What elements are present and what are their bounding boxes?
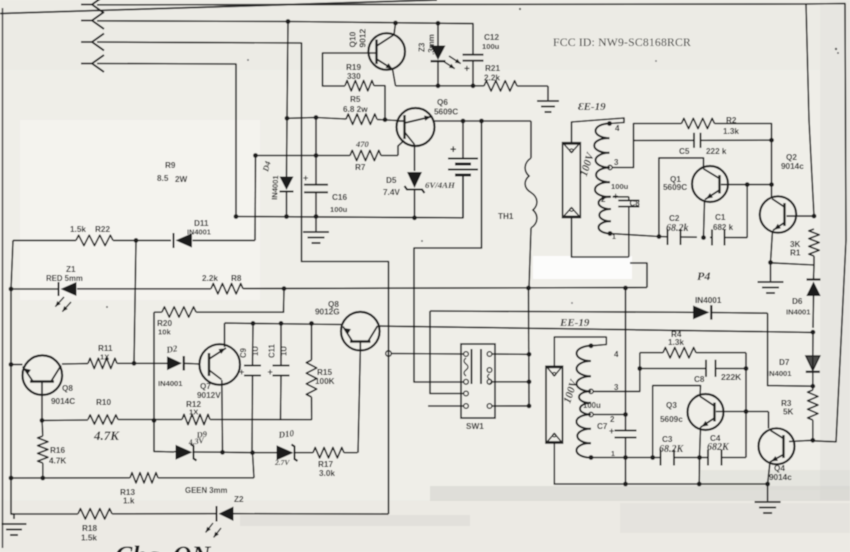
svg-text:Q10: Q10 bbox=[348, 31, 358, 47]
switch SW1 bbox=[461, 344, 495, 418]
svg-text:1: 1 bbox=[612, 234, 616, 241]
label Q8 bbox=[51, 384, 75, 406]
junction bottomrail-Q3e bbox=[697, 482, 702, 487]
wire Q1 collector loop bbox=[659, 158, 704, 237]
svg-text:Q6: Q6 bbox=[437, 98, 448, 107]
transistor Q5 bbox=[341, 312, 380, 351]
zener D9 bbox=[176, 444, 197, 461]
label R5 value bbox=[343, 105, 368, 114]
svg-text:10k: 10k bbox=[158, 328, 171, 337]
svg-text:Z1: Z1 bbox=[66, 265, 76, 274]
label R18 bbox=[81, 524, 97, 543]
label EE-19 bottom bbox=[559, 317, 590, 329]
wire lamp2 top lead bbox=[554, 337, 606, 366]
wire x430 vertical bbox=[430, 311, 464, 394]
junction base-R15 bbox=[309, 321, 314, 326]
svg-text:C2: C2 bbox=[669, 214, 680, 223]
capacitor C3 bbox=[661, 450, 675, 466]
junction base-C11 bbox=[279, 321, 284, 326]
label C8a bbox=[630, 199, 641, 208]
junction Q3base-x746 bbox=[744, 409, 749, 414]
svg-text:R10: R10 bbox=[96, 398, 111, 407]
label D9 4.3V bbox=[187, 436, 205, 447]
winding T2 bbox=[576, 346, 591, 458]
LED Z3 bbox=[431, 23, 461, 86]
svg-text:2: 2 bbox=[601, 195, 606, 204]
label Z1 RED 5mm bbox=[46, 274, 83, 283]
junction x11-R11 bbox=[9, 362, 14, 367]
text FCC ID bbox=[553, 36, 691, 49]
svg-text:IN4001: IN4001 bbox=[187, 228, 211, 237]
AC input arrow 2 bbox=[81, 12, 104, 29]
label C11 rotated bbox=[268, 343, 277, 358]
svg-text:2: 2 bbox=[610, 415, 615, 424]
svg-text:IN4001: IN4001 bbox=[786, 308, 811, 317]
svg-text:+: + bbox=[609, 426, 614, 436]
junction collector-battery bbox=[461, 119, 466, 124]
label 100u T1 bbox=[611, 182, 629, 191]
pin 3 T2 bbox=[589, 383, 619, 394]
svg-text:Z3: Z3 bbox=[418, 42, 427, 52]
wire AC line1 horizontal bbox=[97, 3, 806, 6]
junction R3-bottomwire bbox=[810, 438, 815, 443]
label R3 bbox=[781, 399, 794, 417]
svg-text:R19: R19 bbox=[346, 63, 361, 72]
resistor R5 bbox=[346, 114, 377, 124]
wire Q2 base right bbox=[787, 215, 815, 217]
transistor Q8 bbox=[23, 355, 63, 420]
wire C5 rail bbox=[634, 139, 772, 141]
svg-text:330: 330 bbox=[347, 72, 361, 81]
junction R16-R13 bbox=[40, 476, 45, 481]
junction tap2-x625 bbox=[623, 412, 628, 417]
junction rail288-R20 bbox=[282, 286, 287, 291]
wire tap2 to C7line bbox=[593, 414, 625, 416]
svg-text:222 k: 222 k bbox=[706, 147, 727, 156]
transistor Q10 bbox=[368, 23, 405, 86]
junction R5-x316 bbox=[314, 115, 319, 120]
junction x11-rail288 bbox=[9, 287, 14, 292]
resistor R22 bbox=[76, 235, 113, 245]
label D6 bbox=[786, 297, 811, 317]
page border top diagonal bbox=[0, 0, 437, 14]
svg-text:6V/4AH: 6V/4AH bbox=[425, 180, 456, 190]
label C7 bbox=[597, 422, 608, 431]
resistor R12 bbox=[182, 414, 210, 424]
transistor Q7 bbox=[199, 344, 240, 385]
wire x286 vertical bbox=[287, 22, 289, 217]
stray specks bbox=[106, 8, 839, 308]
battery BT1 6V/4AH bbox=[448, 121, 478, 218]
diode D11 bbox=[174, 233, 193, 248]
svg-text:1.3k: 1.3k bbox=[723, 127, 739, 136]
svg-text:D2: D2 bbox=[165, 343, 179, 355]
junction bottomrail-Q4e bbox=[765, 482, 770, 487]
svg-text:C8: C8 bbox=[694, 375, 705, 384]
label Q7 bbox=[197, 382, 221, 400]
wire rail311 bbox=[430, 311, 813, 386]
svg-text:C7: C7 bbox=[597, 422, 608, 431]
label C9 1U rotated bbox=[251, 346, 260, 356]
svg-text:682K: 682K bbox=[707, 442, 730, 453]
label D4 rotated bbox=[260, 160, 273, 174]
label D2 IN4001 bbox=[158, 379, 183, 388]
svg-text:5609C: 5609C bbox=[434, 108, 458, 117]
label D10 2.7V bbox=[274, 458, 290, 467]
label R11 bbox=[98, 344, 113, 362]
label R7 bbox=[355, 163, 366, 172]
AC input arrow 4 bbox=[81, 55, 104, 72]
junction bottomrail-C7 bbox=[623, 482, 628, 487]
label C3 bbox=[662, 435, 673, 444]
junction Q1base-x747 bbox=[745, 182, 750, 187]
svg-text:C16: C16 bbox=[332, 193, 347, 202]
junction rail216-D4 bbox=[284, 214, 289, 219]
label R15 bbox=[315, 368, 335, 386]
svg-text:+: + bbox=[239, 367, 244, 377]
svg-text:R16: R16 bbox=[50, 446, 65, 455]
svg-text:R17: R17 bbox=[318, 460, 333, 469]
svg-text:+: + bbox=[268, 367, 273, 377]
label D11 IN4001 bbox=[187, 228, 211, 237]
junction R7-x316 bbox=[314, 153, 319, 158]
wire R20 bbox=[154, 289, 284, 313]
svg-text:C1: C1 bbox=[715, 213, 726, 222]
junction x154-R10 bbox=[152, 418, 157, 423]
svg-text:1X: 1X bbox=[100, 353, 109, 362]
svg-text:100u: 100u bbox=[482, 42, 500, 51]
label P4 hw bbox=[697, 269, 710, 283]
wire Q5 base rail bbox=[225, 323, 342, 324]
pin 4 T2 bbox=[589, 343, 619, 359]
svg-text:4: 4 bbox=[615, 124, 620, 133]
junction C8b-x746 bbox=[744, 366, 749, 371]
wire rail216 bbox=[236, 176, 463, 218]
wire R15 top bbox=[311, 324, 313, 361]
label R1 bbox=[790, 240, 801, 258]
svg-text:5609c: 5609c bbox=[660, 415, 683, 424]
svg-text:4.7K: 4.7K bbox=[49, 457, 66, 466]
wire AC line1 corner stub bbox=[806, 4, 846, 443]
diode D4 bbox=[280, 177, 294, 192]
resistor R10 bbox=[88, 415, 118, 424]
label R17 bbox=[318, 460, 335, 478]
svg-text:C12: C12 bbox=[484, 33, 499, 42]
label C3 68.2K hw bbox=[659, 444, 685, 455]
svg-text:+: + bbox=[450, 144, 456, 156]
label R16 bbox=[49, 446, 66, 466]
label 100V bottom bbox=[561, 377, 580, 405]
label 100V top bbox=[578, 150, 597, 178]
svg-text:3: 3 bbox=[614, 158, 619, 167]
junction wire452-C9 bbox=[250, 450, 255, 455]
svg-text:IN4001: IN4001 bbox=[695, 296, 722, 305]
wire Q7 emitter down bbox=[221, 380, 224, 452]
svg-text:R5: R5 bbox=[350, 95, 361, 104]
capacitor C9 bbox=[239, 323, 261, 452]
wire battery plus to SW1 bbox=[414, 121, 482, 382]
junction R10-Q8 bbox=[40, 418, 45, 423]
label IN4001 mid bbox=[695, 296, 722, 305]
label R20 bbox=[157, 319, 172, 337]
pin 2 T1 bbox=[601, 195, 606, 204]
label 1.5k R22 bbox=[70, 225, 110, 234]
pin 1 T1 bbox=[608, 231, 616, 241]
capacitor C16 bbox=[303, 173, 328, 192]
label C11 1U rotated bbox=[280, 346, 289, 356]
pin 1 T2 bbox=[589, 451, 615, 460]
label C9 rotated bbox=[239, 347, 248, 358]
capacitor C11 bbox=[268, 323, 290, 420]
resistor R16 bbox=[38, 420, 48, 478]
junction C8b-x640 bbox=[637, 366, 642, 371]
svg-text:470: 470 bbox=[355, 139, 370, 149]
AC input arrow 3 bbox=[81, 34, 104, 51]
svg-text:R9: R9 bbox=[165, 161, 176, 170]
junction R7-x255 bbox=[253, 153, 258, 158]
wire x136 vertical bbox=[134, 240, 136, 363]
svg-text:100K: 100K bbox=[315, 377, 335, 386]
label R2 bbox=[723, 116, 739, 136]
wire Q3 emitter down bbox=[699, 427, 700, 484]
junction R5-R19drop bbox=[383, 117, 388, 122]
wire tap1 rail C3 C4 bbox=[591, 353, 746, 458]
label R4 bbox=[668, 330, 684, 347]
transistor Q3 bbox=[688, 394, 724, 430]
wire Q5 emitter down bbox=[358, 351, 360, 453]
resistor R7 bbox=[350, 150, 381, 160]
svg-text:1.5k: 1.5k bbox=[70, 225, 86, 234]
svg-text:RED 5mm: RED 5mm bbox=[46, 274, 83, 283]
resistor R8 bbox=[211, 284, 243, 294]
junction SW-354 bbox=[527, 352, 532, 357]
thermistor TH1 bbox=[525, 121, 537, 288]
label C2 bbox=[669, 214, 680, 223]
wire Q10 base bbox=[323, 53, 376, 86]
junction rail86-C12 bbox=[471, 83, 476, 88]
wire R10-R12 bbox=[42, 419, 312, 422]
svg-text:1.5k: 1.5k bbox=[81, 534, 97, 543]
wire Q3 collector loop bbox=[653, 386, 701, 458]
wire R7 rail bbox=[255, 141, 404, 156]
svg-text:C9: C9 bbox=[239, 347, 248, 358]
svg-text:4: 4 bbox=[614, 350, 619, 359]
svg-text:100u: 100u bbox=[611, 182, 629, 191]
svg-text:5K: 5K bbox=[783, 408, 794, 417]
wire Q3 base right bbox=[716, 412, 769, 429]
resistor R15 bbox=[306, 360, 316, 397]
LED Z1 bbox=[55, 282, 76, 312]
junction rail216-C16gnd bbox=[314, 214, 319, 219]
wire tap2 to C8a bbox=[613, 197, 629, 257]
label D2 bbox=[165, 343, 179, 355]
svg-text:100u: 100u bbox=[330, 205, 348, 214]
wire lamp1 top lead bbox=[572, 118, 625, 143]
label C4 682K hw bbox=[707, 442, 730, 453]
label C1 682k bbox=[713, 223, 734, 232]
label Q1 bbox=[663, 175, 687, 192]
label C8b 222K bbox=[721, 372, 742, 382]
svg-text:IN4001: IN4001 bbox=[158, 379, 183, 388]
wire R18-Z2 bbox=[11, 513, 389, 515]
junction line2-x286 bbox=[286, 19, 291, 24]
label 4.7K hw bbox=[93, 428, 120, 443]
label R21 bbox=[485, 64, 500, 73]
ground R21 bbox=[537, 101, 559, 112]
label R12 bbox=[186, 400, 201, 417]
svg-text:3.0k: 3.0k bbox=[319, 469, 335, 478]
wire tap3 to rails bbox=[612, 141, 633, 168]
wire SW1 right pins bbox=[492, 354, 529, 406]
capacitor C1 bbox=[712, 229, 725, 245]
junction Q1base-x771 bbox=[769, 182, 774, 187]
label 470 bbox=[355, 139, 370, 149]
label EE-19 top bbox=[578, 101, 606, 113]
svg-text:100u: 100u bbox=[583, 401, 601, 410]
svg-text:TH1: TH1 bbox=[498, 212, 514, 221]
svg-text:9012G: 9012G bbox=[315, 308, 340, 317]
zener D5 bbox=[405, 172, 425, 218]
svg-text:C5: C5 bbox=[679, 147, 690, 156]
svg-text:R8: R8 bbox=[231, 274, 242, 283]
svg-text:Q2: Q2 bbox=[786, 153, 797, 162]
svg-text:1U: 1U bbox=[280, 346, 289, 356]
svg-text:GEEN 3mm: GEEN 3mm bbox=[185, 486, 228, 495]
wire R15 bottom bbox=[311, 397, 313, 420]
wire D9-D10-R17 bbox=[174, 452, 358, 453]
wire x625 vertical bbox=[625, 288, 627, 484]
wire R13 bbox=[11, 453, 254, 478]
diode D12 IN4001 bbox=[693, 305, 711, 319]
label D10 bbox=[277, 428, 295, 440]
label R9 bbox=[157, 161, 188, 184]
ground bottom left bbox=[2, 524, 27, 535]
transistor Q2 bbox=[760, 196, 796, 232]
svg-text:222K: 222K bbox=[721, 372, 742, 382]
label R10 bbox=[96, 398, 111, 407]
svg-text:2.2k: 2.2k bbox=[484, 74, 500, 83]
label D5 bbox=[383, 176, 400, 197]
label Z2 bbox=[234, 495, 244, 504]
junction line2-Z3 bbox=[436, 21, 441, 26]
wire R22-D11 bbox=[13, 239, 255, 241]
svg-text:9014c: 9014c bbox=[769, 473, 792, 482]
svg-text:6.8 2w: 6.8 2w bbox=[343, 105, 368, 114]
wire R11 bbox=[62, 362, 200, 365]
svg-text:9012V: 9012V bbox=[197, 391, 221, 400]
lamp tube LP1 bbox=[563, 143, 581, 218]
junction wire452-Q7 bbox=[220, 450, 225, 455]
wire SW1 stub bbox=[428, 405, 464, 407]
junction line4-rail216 bbox=[234, 214, 239, 219]
wire x747 vertical bbox=[746, 185, 748, 238]
label C8b bbox=[694, 375, 705, 384]
transistor Q6 bbox=[397, 108, 435, 146]
svg-text:2W: 2W bbox=[175, 175, 188, 184]
svg-text:7.4V: 7.4V bbox=[383, 188, 400, 197]
pin 4 T1 bbox=[607, 121, 620, 133]
svg-text:EE-19: EE-19 bbox=[559, 317, 590, 329]
svg-text:Q4: Q4 bbox=[774, 464, 785, 473]
svg-text:ƐE-19: ƐE-19 bbox=[578, 101, 606, 113]
label C5 bbox=[679, 147, 690, 156]
label 2.2k R8 bbox=[202, 274, 242, 283]
junction Q2base-AC1 bbox=[812, 214, 817, 219]
resistor R2 bbox=[682, 118, 715, 128]
svg-text:2.7V: 2.7V bbox=[274, 458, 290, 467]
wire R5 rail bbox=[287, 118, 397, 121]
label D9 bbox=[195, 429, 208, 441]
svg-text:1U: 1U bbox=[251, 346, 260, 356]
label Q3 bbox=[660, 401, 683, 424]
AC input arrow 1 bbox=[81, 0, 104, 13]
junction x136-R11 bbox=[132, 361, 137, 366]
svg-text:R2: R2 bbox=[726, 116, 737, 125]
label C12 bbox=[482, 33, 500, 51]
junction rail288-TH1SW bbox=[526, 286, 531, 291]
resistor R13 bbox=[130, 473, 158, 483]
label Z3 3mm rotated bbox=[427, 34, 436, 55]
junction line2-Q10 collector bbox=[393, 21, 398, 26]
svg-text:P4: P4 bbox=[697, 269, 710, 283]
label R19 330 bbox=[347, 72, 361, 81]
label C5 222k bbox=[706, 147, 727, 156]
svg-text:68.2k: 68.2k bbox=[666, 223, 689, 234]
wire x316 vertical bbox=[315, 118, 317, 232]
svg-text:D7: D7 bbox=[779, 358, 790, 367]
diode D2 bbox=[167, 356, 184, 371]
label Q6 bbox=[434, 98, 458, 117]
wire Q2 emitter bbox=[771, 231, 773, 282]
svg-text:IN4001: IN4001 bbox=[767, 369, 792, 378]
wire x255 vertical bbox=[254, 156, 257, 241]
zener D10 bbox=[277, 445, 298, 462]
junction x11-R13 bbox=[9, 476, 14, 481]
lamp tube LP2 bbox=[546, 366, 563, 443]
svg-text:5609C: 5609C bbox=[663, 183, 687, 192]
wire SW1 vertical x529 bbox=[528, 288, 531, 406]
label R19 bbox=[346, 63, 361, 72]
svg-text:R21: R21 bbox=[485, 64, 500, 73]
resistor R17 bbox=[313, 448, 344, 458]
capacitor C8a 100u bbox=[613, 191, 639, 207]
svg-text:R1: R1 bbox=[790, 249, 801, 258]
svg-text:9012: 9012 bbox=[358, 29, 368, 48]
svg-text:C11: C11 bbox=[268, 343, 277, 358]
pin 2 T2 bbox=[589, 412, 615, 424]
resistor R20 bbox=[162, 307, 196, 317]
label TH1 bbox=[498, 212, 514, 221]
svg-text:1.k: 1.k bbox=[123, 497, 135, 506]
label D11 bbox=[194, 219, 209, 228]
wire left bus x11 bbox=[11, 240, 14, 519]
resistor R11 bbox=[88, 358, 117, 368]
wire AC line1 right vertical bbox=[806, 4, 814, 216]
label R13 bbox=[120, 488, 135, 506]
svg-text:Q8: Q8 bbox=[62, 384, 73, 393]
svg-text:FCC ID: NW9-SC8168RCR: FCC ID: NW9-SC8168RCR bbox=[553, 36, 691, 49]
wire Q6 emitter bbox=[414, 145, 416, 172]
capacitor C5 bbox=[694, 133, 701, 148]
transistor Q4 bbox=[759, 428, 795, 464]
svg-text:R7: R7 bbox=[355, 163, 366, 172]
wire rail288 bbox=[11, 263, 647, 289]
capacitor C2 bbox=[668, 229, 681, 245]
junction C5-x771 bbox=[769, 138, 774, 143]
wire Q4 emitter bbox=[768, 462, 770, 501]
capacitor C12 wire bbox=[470, 24, 473, 86]
wire Q6 collector rail bbox=[432, 118, 531, 121]
